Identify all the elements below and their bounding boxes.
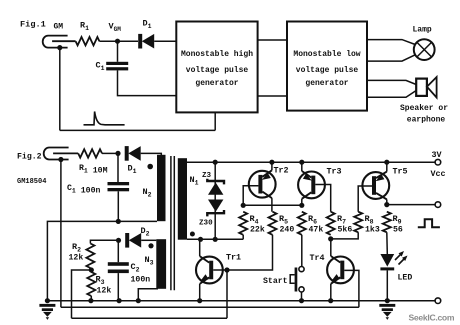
svg-text:VGM: VGM	[109, 22, 122, 34]
resistor R5 240	[269, 212, 277, 235]
wire Tr3 base to R7	[315, 185, 330, 212]
wire Tr5 collector	[386, 199, 388, 204]
lamp	[414, 39, 435, 60]
resistor R3	[87, 272, 95, 296]
wire Tr4 collector	[330, 239, 332, 256]
wire GM cathode down (Fig.2)	[60, 160, 62, 308]
junction Tr5 collector	[384, 202, 389, 207]
svg-text:N3: N3	[145, 255, 154, 267]
svg-text:R7: R7	[337, 214, 346, 226]
wire Tr2 emitter	[271, 162, 273, 170]
N3 phase dot	[148, 243, 153, 248]
transistor Tr5	[362, 172, 389, 199]
svg-text:12k: 12k	[97, 286, 112, 296]
diode D2	[125, 233, 129, 248]
svg-text:R6: R6	[308, 214, 317, 226]
junction Tr2 emitter	[269, 160, 274, 165]
transistor Tr4	[327, 257, 354, 284]
wire Tr4 emitter	[330, 284, 332, 301]
wire Tr4 base to rail2	[344, 270, 359, 307]
wire to lamp lower	[367, 55, 415, 61]
box U1 monostable high	[176, 22, 257, 113]
svg-text:22k: 22k	[250, 225, 265, 235]
wire R1 to D1 node	[102, 152, 118, 154]
svg-text:12k: 12k	[69, 253, 84, 263]
junction R2/R3	[89, 267, 94, 272]
junction R3 ground	[88, 298, 93, 303]
svg-text:R5: R5	[279, 214, 288, 226]
zener Z30	[208, 200, 223, 212]
junction Tr2 base/R4	[241, 203, 246, 208]
svg-text:generator: generator	[305, 79, 348, 88]
svg-text:GM: GM	[54, 23, 64, 32]
svg-text:240: 240	[280, 226, 295, 235]
junction GM cathode (Fig.1)	[57, 45, 62, 50]
transistor Tr2	[249, 171, 276, 198]
resistor R4 22k	[239, 212, 247, 235]
winding N1	[178, 158, 187, 240]
wire C1 bottom to box1	[118, 70, 177, 95]
svg-text:5k6: 5k6	[338, 225, 353, 235]
junction C1 bottom	[116, 219, 121, 224]
svg-text:Monostable high: Monostable high	[181, 50, 253, 59]
box U2 monostable low	[287, 22, 367, 111]
svg-text:voltage pulse: voltage pulse	[296, 66, 359, 75]
svg-text:C2: C2	[131, 262, 140, 274]
wire Tr3 emitter	[301, 162, 303, 171]
wire output run	[387, 204, 438, 206]
wire N3 bottom	[138, 289, 158, 301]
wire Tr3 collector	[301, 199, 303, 206]
svg-text:R1: R1	[80, 21, 89, 33]
junction Tr4 emitter	[328, 298, 333, 303]
junction Tr3 emitter	[299, 160, 304, 165]
wire Tr2 base	[243, 186, 258, 206]
svg-text:Vcc: Vcc	[431, 169, 446, 179]
capacitor C2	[117, 240, 119, 262]
wire Tr1 emitter	[199, 284, 201, 301]
junction R7/Tr4 collector	[328, 236, 333, 241]
wire R7 junction to R8 bottom	[331, 232, 359, 239]
node D1/C1 junction	[115, 151, 120, 156]
speaker or earphone	[416, 79, 427, 96]
svg-text:SeekIC.com: SeekIC.com	[409, 313, 455, 323]
svg-text:R1 10M: R1 10M	[79, 164, 108, 176]
winding N3	[156, 239, 166, 289]
svg-text:Fig.1: Fig.1	[20, 20, 46, 30]
svg-text:R9: R9	[393, 214, 402, 226]
GM tube (Fig.1)	[43, 36, 68, 48]
wire R9 to LED	[386, 232, 389, 254]
svg-text:Fig.2: Fig.2	[17, 152, 42, 162]
svg-text:1k3: 1k3	[365, 225, 380, 235]
resistor R8 1k3	[354, 212, 362, 233]
wire R3 bottom	[90, 296, 92, 301]
junction zener top	[213, 160, 218, 165]
svg-text:N2: N2	[143, 187, 152, 199]
wire Start bottom	[301, 292, 303, 301]
svg-text:Tr3: Tr3	[327, 167, 342, 177]
node D2 junction	[116, 238, 121, 243]
wire node 205 run	[243, 204, 302, 206]
wire to speaker upper	[367, 80, 416, 84]
diode D1 (Fig.2)	[125, 146, 129, 161]
wire N1 bottom up to R4	[242, 235, 244, 240]
wire D2 to N3	[141, 239, 156, 241]
svg-text:Lamp: Lamp	[413, 26, 432, 35]
svg-text:generator: generator	[195, 79, 238, 88]
svg-text:C1: C1	[96, 61, 105, 73]
wire box1-box2 bottom	[258, 95, 287, 97]
wire R6 bottom to Start	[301, 235, 303, 267]
svg-text:Speaker or: Speaker or	[400, 104, 448, 113]
svg-text:GM18504: GM18504	[17, 178, 46, 186]
svg-text:Tr2: Tr2	[274, 166, 289, 176]
wire LED to ground	[386, 270, 388, 300]
svg-text:N1: N1	[190, 175, 199, 187]
wire GM cathode down to bottom	[59, 48, 61, 131]
GM tube (Fig.2)	[44, 148, 69, 160]
wire Tr5 base to R8	[358, 186, 372, 212]
wire rail3 R2/R3 tap to Tr1 base	[72, 317, 228, 319]
svg-text:D2: D2	[141, 226, 150, 238]
junction Tr1 emitter	[197, 298, 202, 303]
terminal output pulse	[435, 202, 441, 208]
switch Start	[299, 267, 304, 272]
N2 phase dot	[147, 164, 153, 170]
terminal ground rail	[435, 298, 441, 304]
wire R1 to node	[99, 40, 138, 42]
svg-text:3V: 3V	[432, 150, 443, 160]
zener Z3	[207, 179, 224, 185]
wire R5 bottom to Tr1 base	[227, 235, 273, 270]
svg-text:R3: R3	[96, 275, 105, 287]
resistor R1 (Fig.2)	[78, 149, 102, 157]
svg-text:D1: D1	[143, 19, 152, 31]
svg-text:Tr1: Tr1	[226, 253, 241, 263]
ground symbol left	[39, 304, 55, 307]
svg-text:R4: R4	[250, 214, 259, 226]
junction LED ground	[385, 298, 390, 303]
pulse icon	[418, 219, 440, 227]
resistor R6 47k	[298, 212, 306, 235]
svg-text:100n: 100n	[131, 276, 151, 285]
transformer core	[170, 156, 172, 290]
wire N1 bottom run	[187, 238, 243, 240]
svg-text:earphone: earphone	[407, 116, 446, 125]
svg-text:Monostable low: Monostable low	[293, 50, 360, 59]
junction C2 ground	[117, 298, 122, 303]
LED D3	[380, 254, 394, 267]
junction zener bottom	[213, 237, 218, 242]
wire rail2 GM cathode to Tr4 base	[61, 306, 359, 308]
resistor R7 5k6	[327, 212, 335, 235]
svg-text:47k: 47k	[309, 225, 324, 235]
wire Tr1 base	[213, 269, 227, 271]
resistor R9 56	[383, 212, 391, 233]
wire C2 bottom	[117, 273, 119, 301]
svg-text:Tr4: Tr4	[310, 253, 325, 263]
wire Tr1 base to rail3	[226, 270, 228, 318]
N1 phase dot	[190, 232, 195, 237]
capacitor C1 (Fig.1)	[117, 41, 119, 62]
junction Tr1 base	[224, 267, 229, 272]
junction Tr5 emitter	[384, 160, 389, 165]
svg-text:C1 100n: C1 100n	[67, 184, 100, 196]
wire zener lead	[214, 162, 216, 239]
junction Tr3 collector/R6	[299, 203, 304, 208]
svg-text:LED: LED	[398, 274, 413, 283]
ground symbol right	[379, 304, 395, 307]
resistor R2	[90, 240, 118, 243]
wire Tr1 collector	[199, 239, 201, 256]
node V_GM junction	[115, 39, 120, 44]
wire Tr2 collector to R5	[271, 198, 273, 212]
junction ground left	[45, 298, 50, 303]
wire node 221 run	[47, 221, 157, 300]
transistor Tr1	[196, 257, 223, 284]
pulse waveform sketch	[84, 112, 125, 125]
winding N2	[157, 155, 166, 221]
transistor Tr3	[298, 172, 325, 199]
wire D1 to box1	[154, 40, 176, 42]
svg-text:R8: R8	[365, 214, 374, 226]
wire R2/R3 tap to rail3	[72, 270, 92, 318]
resistor R1 (Fig.1)	[76, 37, 100, 45]
wire C1 bottom lead	[117, 191, 119, 221]
terminal 3V	[435, 159, 441, 165]
diode D1 (Fig.1)	[138, 34, 142, 49]
svg-text:56: 56	[393, 226, 403, 235]
svg-text:Tr5: Tr5	[393, 167, 408, 177]
wire box1 bottom lead	[214, 112, 216, 130]
wire +3V rail	[187, 161, 438, 163]
wire Tr5 emitter	[386, 162, 388, 171]
svg-text:R2: R2	[72, 242, 81, 254]
wire D1 to N2 top	[141, 153, 162, 156]
wire box1-box2 top	[258, 39, 287, 41]
wire ground rail	[47, 300, 435, 302]
junction N3 ground	[136, 298, 141, 303]
wire to speaker lower	[367, 91, 416, 98]
wire to lamp upper	[367, 40, 415, 45]
junction Start ground	[299, 298, 304, 303]
svg-text:Start: Start	[263, 277, 288, 286]
svg-text:Z30: Z30	[199, 220, 213, 228]
svg-text:voltage pulse: voltage pulse	[186, 66, 249, 75]
junction GM cathode (Fig.2)	[58, 157, 63, 162]
junction Tr1 collector	[198, 237, 203, 242]
capacitor C1 (Fig.2)	[117, 153, 119, 182]
svg-text:D1: D1	[128, 164, 137, 176]
wire bottom run to box1	[60, 129, 215, 131]
